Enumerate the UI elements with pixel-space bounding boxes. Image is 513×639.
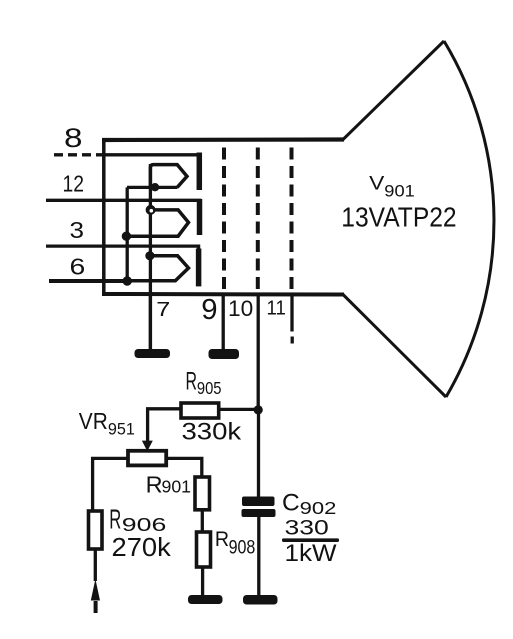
pin 10 lead below base to node A: [257, 296, 260, 410]
resistor R908 body: [197, 532, 211, 567]
svg-text:6: 6: [70, 254, 86, 280]
wire: R906 down to arrow: [94, 549, 97, 581]
grid bar G3: [196, 249, 202, 287]
capacitor C902 plate top: [242, 497, 275, 507]
resistor R905 body: [181, 403, 219, 418]
svg-text:R: R: [109, 504, 121, 535]
svg-text:901: 901: [162, 477, 192, 497]
wire: R905 left to VR951 wiper: [148, 409, 181, 442]
wire: C902 bottom to ground: [257, 517, 260, 596]
svg-text:R: R: [186, 368, 198, 396]
svg-text:R: R: [215, 528, 229, 551]
wire: node A down to C902: [257, 410, 260, 497]
gun 2 cathode outline: [126, 210, 188, 236]
svg-text:906: 906: [122, 515, 167, 535]
grid bar G1: [197, 153, 203, 191]
junction dot at gun3 top / cathode bus: [145, 251, 154, 260]
svg-text:330k: 330k: [182, 418, 243, 445]
junction dot at gun3 bottom / pin 6 wire: [123, 276, 132, 285]
svg-text:901: 901: [384, 181, 415, 200]
resistor R906 body: [89, 511, 103, 549]
C902 value fraction bar: [282, 538, 339, 542]
wire: R908 to ground: [201, 567, 204, 596]
wire: R901 to R908: [201, 510, 204, 532]
svg-text:902: 902: [300, 498, 337, 518]
svg-text:951: 951: [108, 419, 135, 438]
svg-text:905: 905: [197, 378, 222, 398]
tube V901 envelope: base box left edge: [102, 139, 106, 296]
tube V901 envelope: flare bottom diagonal: [343, 295, 446, 398]
wire: cathode bus vertical (pin 7 riser): [149, 164, 152, 350]
wire: stub below arrow: [94, 601, 98, 613]
wire: R905 right to node A: [218, 408, 258, 411]
pin 12 wire to grid bar G2: [46, 200, 200, 233]
svg-text:10: 10: [228, 296, 253, 321]
pin 10 dashed internal lead: [256, 148, 260, 293]
pin 11 dashed internal lead: [290, 148, 294, 294]
svg-text:330: 330: [285, 517, 329, 540]
capacitor C902 plate bottom: [242, 509, 276, 517]
ground under pin 9: [209, 349, 240, 359]
svg-text:11: 11: [267, 298, 286, 320]
pin 11 lead stub: [290, 296, 293, 332]
svg-text:VR: VR: [79, 408, 108, 434]
junction dot node A (R905 / pin10 / C902): [254, 405, 263, 414]
gun 1 bottom edge wire: [127, 186, 178, 189]
tube V901 envelope: flare top diagonal: [343, 41, 444, 140]
junction dot at gun2 bottom / left bus: [122, 232, 131, 241]
pin 6 wire: [49, 279, 127, 283]
potentiometer VR951 body: [128, 451, 166, 466]
wire: left vertical bus: [126, 187, 129, 280]
wire: VR951 left end down to R906: [93, 458, 128, 511]
svg-text:9: 9: [201, 294, 217, 326]
svg-text:1kW: 1kW: [285, 540, 337, 567]
svg-text:908: 908: [229, 537, 256, 559]
grid bar G2: [197, 199, 203, 235]
gun 3 cathode outline: [126, 256, 189, 281]
svg-text:13VATP22: 13VATP22: [341, 201, 456, 232]
arrow up below R906: [91, 579, 100, 601]
pin 7 lead below base: [149, 296, 152, 350]
svg-text:7: 7: [156, 299, 170, 321]
svg-text:270k: 270k: [112, 534, 172, 562]
pin 8 wire inside base to grid bar G1: [104, 155, 199, 188]
ground under pin 7: [135, 349, 171, 358]
svg-text:C: C: [282, 489, 300, 516]
VR951 wiper arrowhead: [142, 441, 153, 452]
junction dot (donut) at gun2 top / cathode bus: [146, 205, 156, 215]
resistor R901 body: [195, 477, 210, 510]
pin 8 wire (dashed lead outside base): [54, 153, 104, 156]
ground under R908: [188, 595, 223, 604]
tube V901 envelope: neck/base top edge: [102, 137, 344, 142]
gun 1 cathode outline: [150, 165, 187, 188]
tube V901 envelope: faceplate arc: [444, 41, 494, 397]
ground under C902: [243, 595, 278, 605]
wire: VR951 right end down to R901: [166, 458, 202, 477]
svg-text:3: 3: [70, 217, 85, 243]
junction dot at gun1 bottom / cathode bus: [151, 183, 159, 191]
svg-text:8: 8: [64, 123, 83, 153]
pin 9 dashed internal lead: [222, 148, 226, 293]
svg-text:12: 12: [63, 171, 85, 197]
pin 11 lead stub dash: [291, 337, 294, 344]
svg-text:R: R: [146, 471, 163, 497]
pin 9 lead below base: [222, 296, 225, 350]
pin 3 wire to grid bar G3: [46, 246, 199, 284]
svg-text:V: V: [369, 174, 385, 195]
tube V901 envelope: neck/base bottom edge: [102, 292, 344, 297]
